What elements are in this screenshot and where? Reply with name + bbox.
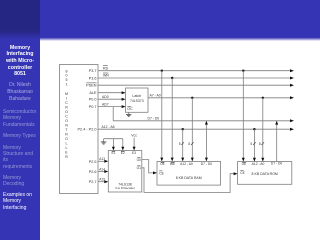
junction WR to RAM1 WE <box>171 77 173 79</box>
svg-text:A15: A15 <box>99 178 105 182</box>
pin PSEN <box>86 83 97 88</box>
ground at latch OC <box>126 112 131 116</box>
wire ALE to latch <box>98 91 126 94</box>
memory chip ROM2 8KB DATA ROM <box>238 162 292 185</box>
pin P2.5 <box>89 160 97 164</box>
svg-text:O1: O1 <box>137 166 142 170</box>
microcontroller U1 8051 body <box>60 65 99 194</box>
svg-text:0: 0 <box>66 74 68 78</box>
svg-text:1: 1 <box>66 83 68 87</box>
svg-text:PSEN: PSEN <box>86 84 97 88</box>
wire A7-A0 drop to RAM1, bus slash 8 <box>188 98 193 162</box>
wire decoder O0 to RAM1 CE <box>142 160 157 175</box>
pin P2.7 <box>89 180 97 184</box>
svg-text:A14: A14 <box>99 167 105 171</box>
svg-text:3 to 8 Decoder: 3 to 8 Decoder <box>115 186 135 190</box>
sidebar nav item 5 (current) <box>3 192 39 211</box>
svg-text:M: M <box>65 92 68 96</box>
wire D7-D0 to RAM1 bidirectional arrows <box>205 121 208 162</box>
sidebar nav item 3 <box>3 145 39 171</box>
wire RD drop to ROM2 OE with arrow <box>242 71 245 162</box>
sidebar presentation title <box>0 45 40 79</box>
net RD wire <box>98 66 294 73</box>
svg-text:A12 - A0: A12 - A0 <box>252 162 265 166</box>
svg-text:R: R <box>65 132 68 136</box>
svg-text:OE: OE <box>242 162 248 166</box>
svg-text:C: C <box>65 101 68 105</box>
svg-text:C: C <box>65 114 68 118</box>
svg-text:O: O <box>65 119 68 123</box>
svg-text:A12 - A0: A12 - A0 <box>180 162 193 166</box>
pin P3.7 <box>89 69 97 73</box>
top title bar <box>0 0 320 41</box>
junction A7-A0 to RAM1 <box>191 97 193 99</box>
wire ground to decoder E1 <box>112 139 115 151</box>
svg-text:O0: O0 <box>137 158 142 162</box>
ground at decoder E1 E2 <box>101 139 123 144</box>
Vcc supply to decoder E3 <box>131 134 137 151</box>
wire A15 P2.7 to decoder <box>98 178 108 184</box>
svg-text:L: L <box>66 141 68 145</box>
pin P2.6 <box>89 170 97 174</box>
svg-text:A12 - A8: A12 - A8 <box>102 125 115 129</box>
sidebar nav item 4 <box>3 175 39 188</box>
svg-text:I: I <box>66 96 67 100</box>
sidebar author <box>0 82 40 102</box>
svg-text:RD: RD <box>103 66 109 70</box>
net PSEN wire <box>98 84 294 87</box>
svg-text:OC: OC <box>127 107 133 111</box>
svg-text:E2: E2 <box>121 151 125 155</box>
svg-text:E1: E1 <box>111 151 115 155</box>
svg-text:AD7: AD7 <box>102 103 109 107</box>
latch 74LS373 <box>126 88 148 112</box>
wire A12-A8 drop to RAM1, bus slash 5 <box>179 129 184 161</box>
svg-text:P0.7: P0.7 <box>89 105 97 109</box>
svg-text:8: 8 <box>259 142 261 146</box>
svg-text:5: 5 <box>250 142 252 146</box>
svg-text:O: O <box>65 110 68 114</box>
wire WR drop to RAM1 WE with arrow <box>171 78 174 161</box>
svg-text:E3: E3 <box>132 151 136 155</box>
svg-text:5: 5 <box>66 78 68 82</box>
svg-text:L: L <box>66 146 68 150</box>
junction A7-A0 to ROM2 <box>262 97 264 99</box>
svg-text:CE: CE <box>159 171 164 175</box>
wire A14 P2.6 to decoder <box>98 167 108 173</box>
svg-text:D7 - D0: D7 - D0 <box>271 162 283 166</box>
svg-text:N: N <box>65 123 68 127</box>
wire decoder O1 to ROM2 CE <box>142 168 238 193</box>
wire A12-A8 drop to ROM2, bus slash 5 <box>250 129 255 161</box>
net D7-D0 wire <box>113 107 294 123</box>
svg-text:8: 8 <box>188 142 190 146</box>
wire AD7 P0.7 to latch <box>98 103 126 109</box>
junction A12-A8 to ROM2 <box>253 128 255 130</box>
svg-text:CE: CE <box>240 171 245 175</box>
svg-text:P2.7: P2.7 <box>89 180 97 184</box>
svg-text:D7 - D0: D7 - D0 <box>148 116 160 120</box>
svg-text:P2.6: P2.6 <box>89 170 97 174</box>
svg-text:P2.4 - P2.0: P2.4 - P2.0 <box>78 128 97 132</box>
svg-text:8: 8 <box>66 69 68 73</box>
wire ROM2 D7-D0 up to data bus with arrow <box>275 121 278 162</box>
svg-text:OE: OE <box>160 162 166 166</box>
pin ALE <box>89 91 97 95</box>
memory chip RAM1 8KB DATA RAM <box>157 161 221 185</box>
junction RD to ROM2 OE <box>242 70 244 72</box>
svg-text:P3.7: P3.7 <box>89 69 97 73</box>
net A7-A0 wire from latch <box>148 94 294 100</box>
wire A13 P2.5 to decoder <box>98 157 108 163</box>
svg-text:WR: WR <box>103 74 109 78</box>
pin P3.6 <box>89 77 97 81</box>
decoder 74LS138 <box>108 151 142 193</box>
svg-text:74LS373: 74LS373 <box>130 99 144 103</box>
pin P0.0 <box>89 98 97 102</box>
junction RD to RAM1 OE <box>161 70 163 72</box>
sidebar nav item 1 <box>3 109 39 128</box>
svg-text:O: O <box>65 137 68 141</box>
svg-text:AD0: AD0 <box>102 95 109 99</box>
svg-text:5: 5 <box>179 142 181 146</box>
svg-text:A13: A13 <box>99 157 105 161</box>
sidebar nav item 2 <box>3 133 39 139</box>
svg-text:P3.6: P3.6 <box>89 77 97 81</box>
net A12-A8 wire <box>98 125 294 131</box>
svg-text:A7 - A0: A7 - A0 <box>150 94 161 98</box>
svg-text:Latch: Latch <box>132 94 141 98</box>
pin P0.7 <box>89 105 97 109</box>
junction A12-A8 to RAM1 <box>182 128 184 130</box>
wire RD drop to RAM1 OE with arrow <box>160 71 163 162</box>
svg-text:8 KB DATA ROM: 8 KB DATA ROM <box>252 172 278 176</box>
sidebar dark corner block <box>0 0 40 40</box>
svg-text:8 KB DATA RAM: 8 KB DATA RAM <box>176 176 202 180</box>
wire ground to decoder E2 <box>121 139 124 151</box>
svg-text:Vcc: Vcc <box>131 134 137 138</box>
svg-text:R: R <box>65 105 68 109</box>
svg-text:P2.5: P2.5 <box>89 160 97 164</box>
svg-text:D7 - D0: D7 - D0 <box>201 162 213 166</box>
wire AD0 P0.0 to latch <box>98 95 126 101</box>
svg-text:R: R <box>65 155 68 159</box>
svg-text:P0.0: P0.0 <box>89 98 97 102</box>
pin P2.4 - P2.0 <box>78 128 97 132</box>
svg-text:WE: WE <box>170 162 176 166</box>
wire A7-A0 drop to ROM2, bus slash 8 <box>259 98 264 162</box>
sidebar background <box>0 32 40 240</box>
svg-text:ALE: ALE <box>89 91 97 95</box>
net WR wire <box>98 73 294 80</box>
